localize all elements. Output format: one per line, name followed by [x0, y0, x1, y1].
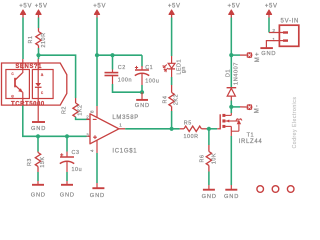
- wire node A to R2 top: [39, 55, 76, 98]
- capacitor C2: [105, 65, 133, 84]
- svg-text:R1: R1: [28, 36, 34, 44]
- op-amp output pin stub: [119, 128, 125, 130]
- svg-text:+5V: +5V: [228, 4, 241, 10]
- wire op-amp V- to ground: [96, 153, 98, 183]
- node C junction (rail / C3): [65, 134, 69, 138]
- wire R1 bottom to node A: [38, 48, 40, 59]
- svg-text:100n: 100n: [118, 78, 132, 84]
- wire +5V P4 down to LED1: [171, 18, 173, 57]
- node F junction (C1/C2 ground tie): [140, 90, 144, 94]
- resistor R5: [180, 121, 207, 140]
- collector pin wire into box: [22, 59, 24, 73]
- svg-text:100R: 100R: [184, 134, 199, 140]
- svg-text:T1: T1: [247, 133, 255, 139]
- op-amp non-inverting input pin stub: [87, 135, 91, 137]
- svg-text:10K: 10K: [212, 153, 218, 164]
- svg-text:C2: C2: [118, 65, 126, 71]
- svg-text:15K: 15K: [40, 156, 46, 167]
- node D junction (+5V rail tap): [95, 53, 99, 57]
- mounting hole H1: [257, 186, 264, 193]
- wire source to ground: [230, 136, 232, 185]
- supply +5V P4: [168, 4, 181, 18]
- resistor R6: [199, 145, 217, 172]
- svg-text:IRLZ44: IRLZ44: [239, 139, 263, 145]
- mounting hole H3: [287, 186, 294, 193]
- svg-text:GND: GND: [31, 126, 46, 132]
- svg-text:1: 1: [272, 37, 275, 43]
- wire node B to R3: [37, 136, 39, 151]
- svg-text:210R: 210R: [41, 32, 47, 47]
- svg-text:1K2: 1K2: [77, 104, 83, 115]
- svg-text:M-: M-: [254, 104, 260, 114]
- ground GND (op-amp V-): [90, 183, 105, 199]
- svg-text:D1: D1: [226, 69, 232, 77]
- ground GND (R6): [202, 185, 217, 200]
- svg-text:c: c: [11, 71, 14, 76]
- svg-text:2K2: 2K2: [174, 94, 180, 105]
- svg-text:2: 2: [272, 28, 275, 34]
- supply +5V P5: [228, 4, 241, 18]
- wire R4 to output rail: [171, 111, 173, 129]
- svg-text:GND: GND: [224, 194, 239, 199]
- wire R3 to ground: [37, 172, 39, 181]
- node H junction (R5 / R6 / gate): [207, 127, 211, 131]
- svg-text:+5V: +5V: [265, 4, 278, 10]
- svg-text:IC1G$1: IC1G$1: [112, 148, 137, 154]
- svg-text:e: e: [11, 94, 14, 99]
- svg-text:+5V: +5V: [35, 4, 48, 10]
- wire connector pin 1 to ground: [266, 41, 279, 48]
- svg-text:GND: GND: [90, 193, 105, 199]
- svg-text:3: 3: [86, 132, 89, 137]
- svg-text:GND: GND: [31, 193, 46, 199]
- svg-text:Codrey Electronics: Codrey Electronics: [292, 97, 298, 149]
- sensor phototransistor compartment: [6, 70, 30, 99]
- svg-text:8: 8: [90, 110, 95, 113]
- svg-text:C1: C1: [145, 65, 153, 71]
- node I junction (M+ tap): [229, 53, 233, 57]
- wire +5V P3 down to op-amp V+: [96, 18, 98, 107]
- wire node I to M+ pad: [231, 54, 240, 56]
- diode D1 1N4007: [226, 62, 240, 100]
- pad M+ stub: [240, 54, 246, 56]
- wire +5V to R1 top: [38, 18, 40, 29]
- svg-text:c: c: [41, 90, 44, 95]
- pad M+: [246, 51, 261, 62]
- sensor LED compartment: [32, 70, 53, 99]
- svg-text:R4: R4: [162, 96, 168, 104]
- supply +5V P6: [265, 4, 278, 18]
- node G junction (R4 / output): [170, 127, 174, 131]
- svg-text:R6: R6: [199, 155, 205, 163]
- svg-text:GND: GND: [135, 103, 150, 109]
- wire R6 to ground: [208, 172, 210, 186]
- svg-text:TCRT5000: TCRT5000: [11, 101, 45, 107]
- resistor R3: [27, 152, 46, 173]
- wire emitter to plus-input rail: [23, 106, 87, 137]
- svg-text:100u: 100u: [145, 78, 159, 84]
- node J junction (M- / drain): [229, 105, 233, 109]
- svg-text:a: a: [41, 72, 44, 77]
- svg-text:4: 4: [90, 149, 95, 152]
- mounting hole H2: [272, 186, 279, 193]
- svg-text:+5V: +5V: [19, 4, 32, 10]
- resistor R4: [162, 85, 179, 111]
- wire node H down to R6: [208, 129, 210, 145]
- LED LED1: [163, 56, 187, 77]
- node B junction (emitter / R3): [36, 134, 40, 138]
- svg-text:1: 1: [119, 123, 122, 128]
- ground GND (R3): [31, 181, 46, 199]
- svg-text:2: 2: [86, 115, 89, 120]
- svg-text:C3: C3: [72, 150, 80, 156]
- wire C1 bottom: [141, 85, 143, 92]
- svg-text:+5V: +5V: [168, 4, 181, 10]
- connector X1 5V-IN: [269, 19, 299, 47]
- ground GND (5V-IN pin 1): [260, 48, 276, 57]
- svg-text:GND: GND: [202, 194, 217, 199]
- op-amp inverting input pin stub: [87, 118, 91, 120]
- wire +5V to sensor collector: [22, 18, 24, 60]
- emitter pin wire out of box: [22, 92, 24, 106]
- wire +5V P6 to connector pin 2: [268, 18, 270, 33]
- svg-text:1N4007: 1N4007: [234, 62, 240, 85]
- wire +5V rail to C2/C1: [97, 54, 142, 56]
- wire +5V P5 down to D1: [230, 18, 232, 88]
- supply +5V P1: [19, 4, 32, 18]
- pad M- stub: [240, 106, 246, 108]
- wire R5 to gate node: [207, 128, 218, 130]
- wire LED1 to R4: [171, 77, 173, 85]
- svg-text:10u: 10u: [72, 167, 83, 173]
- transistor Q1 T1 IRLZ44: [217, 113, 262, 145]
- wire C3 to ground: [66, 172, 68, 181]
- ground GND (T1 source): [224, 185, 239, 200]
- ground GND (C3): [60, 181, 75, 199]
- wire output rail: [125, 128, 180, 130]
- svg-text:GND: GND: [60, 193, 75, 199]
- resistor R1: [28, 28, 47, 48]
- op-amp U1 IC1G$1: [86, 106, 139, 154]
- wire C1 top: [141, 55, 143, 66]
- svg-text:R3: R3: [27, 158, 33, 166]
- capacitor C3 (polarized): [60, 150, 82, 173]
- ground GND (sensor LED cathode): [31, 105, 46, 132]
- wire node J to M- pad: [231, 106, 240, 108]
- phototransistor symbol: [15, 73, 23, 93]
- capacitor C1 (polarized): [135, 65, 160, 85]
- supply +5V P2: [35, 4, 48, 18]
- svg-text:R2: R2: [62, 106, 68, 114]
- node A junction (R1 / LED anode / R2): [36, 53, 40, 57]
- svg-text:+5V: +5V: [93, 4, 106, 10]
- wire node C to C3: [66, 136, 68, 151]
- sensor IR LED symbol: [35, 59, 42, 105]
- wire C2 bottom to C1 bottom: [113, 84, 143, 92]
- svg-text:R5: R5: [184, 121, 192, 127]
- svg-text:LM358P: LM358P: [112, 115, 139, 121]
- pad M-: [246, 104, 260, 114]
- svg-text:GND: GND: [261, 51, 276, 57]
- wire C2 top: [112, 55, 114, 69]
- svg-text:gn: gn: [181, 66, 187, 73]
- wire R2 bottom to op-amp inverting input: [76, 117, 87, 120]
- resistor R2: [62, 98, 84, 117]
- node E junction (C2 tap): [110, 53, 114, 57]
- ground GND (C1/C2): [135, 92, 150, 109]
- svg-text:5V-IN: 5V-IN: [281, 19, 300, 25]
- sensor SENS?1 outer body: [2, 63, 67, 105]
- wire D1 anode to node J: [230, 101, 232, 114]
- supply +5V P3: [93, 4, 106, 18]
